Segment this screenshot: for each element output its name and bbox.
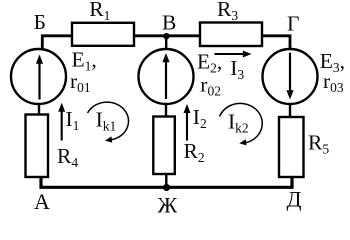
svg-text:А: А [34, 189, 50, 214]
svg-text:Д: Д [287, 187, 302, 212]
svg-text:Б: Б [34, 10, 46, 34]
svg-text:Ж: Ж [158, 193, 178, 218]
svg-text:Г: Г [287, 12, 299, 36]
svg-text:В: В [162, 11, 176, 35]
